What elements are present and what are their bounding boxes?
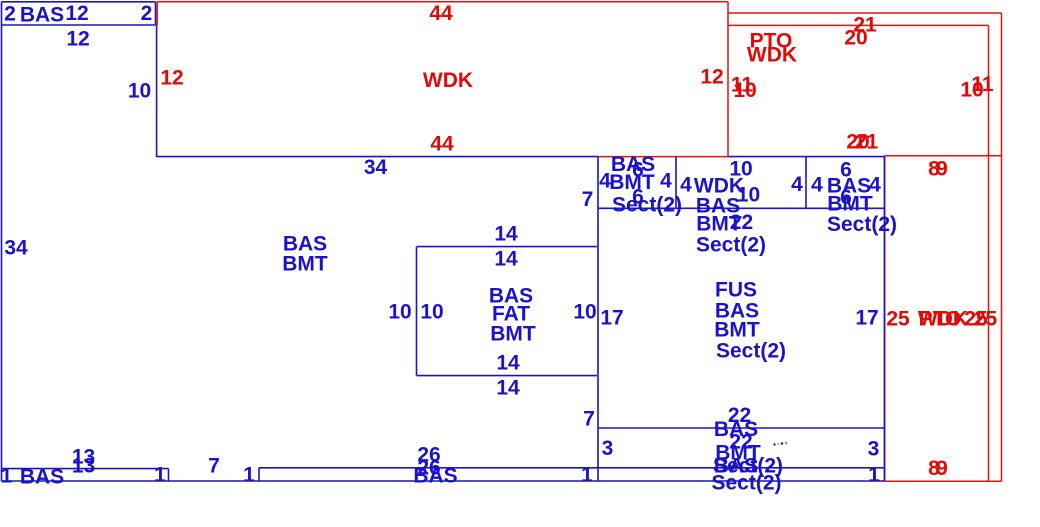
svg-text:Sect(2): Sect(2): [827, 213, 897, 236]
svg-text:WDK: WDK: [747, 43, 797, 66]
svg-text:10: 10: [388, 300, 411, 323]
svg-text:1: 1: [1, 464, 13, 487]
svg-text:44: 44: [430, 132, 454, 155]
svg-text:BAS: BAS: [20, 465, 64, 488]
WDK deck top wall: [157, 1, 728, 3]
svg-text:FUS: FUS: [715, 278, 757, 301]
svg-text:10: 10: [128, 79, 151, 102]
svg-text:PTO: PTO: [919, 307, 962, 330]
svg-text:WDK: WDK: [423, 69, 473, 92]
BAS top-left box bottom wall: [2, 24, 156, 26]
svg-text:14: 14: [494, 247, 518, 270]
PTO right column outer wall: [1001, 13, 1003, 481]
svg-text:12: 12: [160, 66, 183, 89]
svg-text:BAS: BAS: [413, 464, 457, 487]
svg-text:2: 2: [141, 2, 153, 25]
upper boxes top wall (blue part): [729, 156, 885, 158]
bottom-left 13-ft strip right wall: [168, 469, 170, 482]
main outline right wall (over red): [883, 156, 885, 481]
BAS top-left box top wall: [2, 1, 156, 3]
svg-text:12: 12: [66, 27, 89, 50]
svg-text:34: 34: [364, 156, 388, 179]
svg-text:25: 25: [974, 307, 998, 330]
step wall below top-left box: [156, 25, 158, 157]
right 6x4 box left wall: [805, 157, 807, 209]
svg-text:20: 20: [844, 26, 867, 49]
svg-text:14: 14: [496, 376, 520, 399]
svg-text:BAS: BAS: [20, 3, 64, 26]
svg-text:44: 44: [429, 2, 453, 25]
lower 3-ft strip bottom wall: [259, 467, 885, 469]
main outline bottom wall: [2, 480, 885, 482]
svg-text:1: 1: [154, 463, 166, 486]
svg-text:4: 4: [680, 173, 692, 196]
svg-text:34: 34: [4, 236, 28, 259]
svg-text:9: 9: [936, 457, 948, 480]
svg-text:12: 12: [700, 65, 723, 88]
BAS FAT BMT box left wall: [416, 247, 418, 376]
main outline left wall: [1, 2, 3, 482]
svg-text:2: 2: [4, 2, 16, 25]
left 6x4 box right wall: [675, 157, 677, 209]
WDK upper-right deck top wall (20 ft): [728, 24, 989, 26]
svg-text:17: 17: [855, 306, 878, 329]
svg-text:14: 14: [494, 222, 518, 245]
svg-text:11: 11: [971, 73, 994, 96]
BAS top-left box right wall: [155, 2, 157, 25]
lower 22-ft strip top wall: [598, 427, 885, 429]
svg-text:BMT: BMT: [714, 318, 760, 341]
svg-text:Sect(2): Sect(2): [696, 233, 766, 256]
svg-text:7: 7: [582, 188, 594, 211]
svg-text:9: 9: [936, 157, 948, 180]
main outline upper wall (34 ft): [157, 156, 598, 158]
svg-text:17: 17: [600, 306, 623, 329]
BAS FAT BMT box top wall: [417, 246, 598, 248]
svg-text:1: 1: [581, 463, 593, 486]
svg-text:3: 3: [868, 437, 880, 460]
bottom 26-ft strip left wall: [258, 468, 260, 482]
svg-text:1: 1: [243, 463, 255, 486]
WDK deck right wall: [727, 2, 729, 157]
right column upper wall (9 ft): [885, 155, 1002, 157]
svg-text:7: 7: [208, 454, 220, 477]
svg-text:10: 10: [733, 79, 756, 102]
svg-text:1: 1: [868, 463, 880, 486]
svg-text:4: 4: [791, 173, 803, 196]
svg-text:BMT: BMT: [696, 212, 742, 235]
svg-text:10: 10: [573, 300, 596, 323]
svg-text:25: 25: [886, 307, 910, 330]
svg-text:12: 12: [65, 2, 88, 25]
svg-text:Sect(2): Sect(2): [711, 471, 781, 494]
svg-text:Sect(2): Sect(2): [716, 339, 786, 362]
svg-text:7: 7: [583, 407, 595, 430]
svg-text:21: 21: [855, 130, 879, 153]
main outline center-left wall: [597, 157, 599, 482]
right column hidden wall under blue: [884, 156, 886, 481]
svg-text:14: 14: [496, 351, 520, 374]
PTO patio top wall (21 ft): [728, 12, 1002, 14]
svg-text:4: 4: [811, 173, 823, 196]
svg-text:10: 10: [420, 300, 443, 323]
svg-text:Sect(2): Sect(2): [612, 193, 682, 216]
WDK deck bottom wall (visible part): [598, 156, 729, 158]
BAS FAT BMT box bottom wall: [417, 375, 598, 377]
WDK deck left wall: [156, 2, 158, 25]
svg-text:BMT: BMT: [490, 322, 536, 345]
WDK right column left-inner wall: [988, 25, 990, 481]
right column bottom wall: [885, 480, 1002, 482]
svg-text:BMT: BMT: [282, 252, 328, 275]
svg-text:4: 4: [660, 169, 672, 192]
svg-text:10: 10: [737, 183, 760, 206]
svg-text:3: 3: [602, 437, 614, 460]
stray mark dots: [773, 443, 775, 445]
upper boxes bottom wall: [598, 207, 885, 209]
svg-text:13: 13: [72, 454, 95, 477]
bottom-left 13-ft strip top wall: [2, 468, 169, 470]
